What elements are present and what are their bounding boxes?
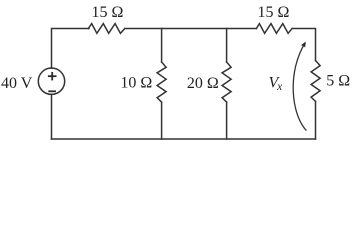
resistor 5ohm (right branch) <box>311 61 320 102</box>
resistor 15ohm (top-left) <box>88 24 125 34</box>
wire: 10ohm branch bottom lead <box>161 102 163 139</box>
svg-text:15 Ω: 15 Ω <box>92 4 124 21</box>
Vx reference arrow (curved arc with arrowhead) <box>293 43 306 131</box>
plus sign of voltage source <box>48 72 57 80</box>
resistor 10ohm (first shunt branch) <box>157 62 166 102</box>
svg-text:5 Ω: 5 Ω <box>326 73 350 90</box>
wire: bottom rail <box>52 138 316 140</box>
voltage source 40 V (circle) <box>38 68 64 94</box>
minus sign of voltage source <box>48 90 56 92</box>
wire: top-left from source to first resistor <box>52 29 90 69</box>
wire: top-middle between the two 15ohm resistors <box>125 28 257 30</box>
Vx arrowhead <box>301 42 306 48</box>
wire: 10ohm branch top lead <box>161 29 163 63</box>
svg-text:10 Ω: 10 Ω <box>120 75 152 92</box>
wire: top-right corner down to 5ohm resistor <box>292 29 315 61</box>
wire: right side below 5ohm to bottom-right corner <box>315 102 317 140</box>
wire: 20ohm branch bottom lead <box>226 102 228 139</box>
svg-text:15 Ω: 15 Ω <box>258 4 290 21</box>
resistor 20ohm (second shunt branch) <box>222 62 231 102</box>
resistor 15ohm (top-right) <box>256 24 292 34</box>
svg-text:40 V: 40 V <box>1 75 33 92</box>
svg-text:Vx: Vx <box>269 75 284 94</box>
wire: bottom-left up to source bottom <box>51 94 53 139</box>
wire: 20ohm branch top lead <box>226 29 228 63</box>
svg-text:20 Ω: 20 Ω <box>187 75 219 92</box>
